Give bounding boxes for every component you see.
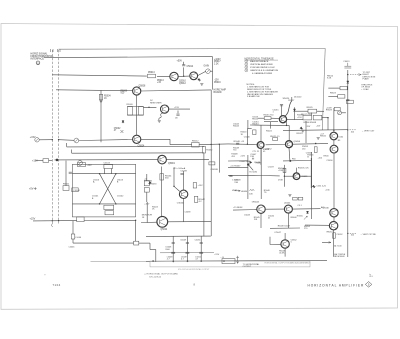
cross mark: [120, 130, 123, 133]
wire bus 4b: [167, 158, 210, 160]
transistor Q5004: [133, 135, 141, 143]
wire bus 4: [55, 159, 158, 161]
wire output bus left: [91, 260, 147, 262]
svg-text:Q5644: Q5644: [284, 202, 291, 204]
capacitor C5041: [134, 241, 139, 245]
wire CRT deflection line: [347, 70, 349, 257]
resistor R5666: [303, 115, 312, 120]
transistor Q5040: [179, 190, 187, 198]
wire upper right bus: [283, 160, 312, 162]
svg-text:R5655: R5655: [297, 216, 304, 218]
wire mid bus 2b: [261, 175, 280, 177]
resistor R5004: [99, 94, 102, 100]
svg-text:2.2K: 2.2K: [214, 63, 219, 65]
wire jog down: [169, 139, 171, 144]
svg-text:Q5019: Q5019: [168, 163, 176, 165]
resistor R5005: [43, 159, 49, 163]
wire X diagonal 2: [100, 174, 116, 204]
wire driver column: [161, 167, 163, 217]
wire pot stub: [79, 159, 81, 162]
svg-text:C5104: C5104: [73, 190, 80, 192]
transistor Q5054: [286, 141, 293, 148]
svg-text:MAIN INTERFACE: MAIN INTERFACE: [250, 60, 269, 63]
wire Q5044 emitter: [260, 213, 262, 228]
svg-text:C5.1: C5.1: [298, 205, 302, 207]
title diamond 5: [365, 282, 371, 288]
wire R5001 to cable: [39, 139, 52, 141]
wire L5046 branch: [72, 221, 74, 234]
wire feed to CRT upper: [283, 129, 348, 132]
junction X bl: [99, 203, 100, 204]
svg-text:R5023: R5023: [297, 133, 304, 135]
wire Q5040 collector: [183, 171, 185, 190]
svg-text:INTERFACE: INTERFACE: [31, 57, 45, 60]
wire right column bottom: [333, 230, 335, 257]
wire RC pair bottom: [127, 114, 143, 116]
wire center vert top: [247, 120, 249, 129]
svg-text:+ COAX: + COAX: [361, 88, 369, 91]
wire bus 3: [72, 152, 204, 154]
svg-text:+15V: +15V: [32, 160, 38, 163]
svg-text:BOARD: BOARD: [214, 91, 222, 94]
resistor R5009: [127, 107, 132, 116]
svg-text:R5021 4.5: R5021 4.5: [270, 136, 280, 138]
coax curve to delay line: [285, 101, 292, 117]
wire to C5014: [183, 67, 185, 76]
svg-text:Q9046: Q9046: [322, 207, 329, 209]
wire Q5046 collector: [284, 233, 286, 240]
capacitor C504B: [229, 175, 232, 176]
junction e: [286, 125, 287, 126]
wire upper signal: [50, 57, 213, 58]
svg-text:+50V: +50V: [240, 156, 245, 158]
svg-text:GAIN: GAIN: [204, 65, 210, 68]
wire stub2: [71, 150, 73, 154]
wire output bus: [146, 260, 327, 261]
wire delay feed: [73, 242, 134, 244]
node circled 8: [36, 61, 40, 65]
capacitor C9021: [346, 99, 349, 100]
wire pickoff row: [146, 235, 211, 237]
wire R9023 left: [328, 95, 337, 97]
potentiometer R5018 GAIN: [206, 69, 211, 74]
svg-text:+15V: +15V: [87, 165, 93, 167]
wire feed2: [36, 160, 44, 162]
ground q5653: [288, 195, 291, 197]
wire collector bus: [250, 124, 289, 126]
wire diode branch: [294, 107, 296, 119]
svg-text:C/5047: C/5047: [274, 232, 282, 234]
svg-text:SYNCHRONIZER LOGIC: SYNCHRONIZER LOGIC: [250, 67, 275, 69]
junction X tl: [99, 173, 100, 174]
wire Q5014 emitter: [286, 122, 288, 126]
wire pot out: [342, 112, 346, 114]
wire up from base: [246, 129, 248, 145]
junction blob: [56, 159, 59, 162]
junction bus: [223, 260, 225, 262]
wire alt in: [322, 241, 331, 243]
wire down to Q5012 node: [212, 57, 214, 90]
wire center vert 1: [247, 155, 249, 199]
resistor squiggle: [250, 189, 255, 191]
wire trimmer right leg: [111, 169, 113, 174]
wire R5033 top: [146, 174, 148, 181]
wire into Q5052: [228, 143, 258, 146]
resistor R5037: [193, 183, 196, 188]
svg-text:C9013: C9013: [343, 61, 350, 63]
connector ticks: [51, 49, 61, 52]
wire R5056 column: [283, 165, 285, 187]
wire down to C5048 box: [135, 220, 137, 241]
diode CR5017: [293, 109, 295, 111]
wire feed3: [33, 220, 77, 222]
junction top: [289, 160, 291, 162]
resistor R5042: [194, 196, 197, 202]
svg-text:R5044: R5044: [233, 126, 240, 128]
junction 219: [219, 144, 220, 145]
svg-text:C5051: C5051: [195, 240, 202, 242]
wire Q5010 to Q5012: [178, 75, 190, 77]
wire right column top: [333, 108, 335, 132]
capacitor C5051: [200, 242, 203, 243]
svg-text:270B: 270B: [278, 180, 283, 182]
svg-text:R5012: R5012: [192, 140, 199, 142]
wire left of right block: [305, 121, 307, 143]
wire cap stub: [177, 111, 179, 114]
svg-text:Q5054: Q5054: [294, 141, 301, 143]
capacitor C5016: [176, 114, 179, 115]
svg-text:-15V: -15V: [316, 125, 321, 127]
wire X bottom to box right: [116, 203, 136, 205]
wire RC pair top: [127, 106, 143, 108]
svg-text:C5102: C5102: [117, 196, 124, 198]
svg-text:& CAMERA POWER: & CAMERA POWER: [252, 72, 273, 75]
svg-text:7104: 7104: [53, 283, 61, 287]
resistor R5021: [273, 138, 278, 141]
capacitor at box left: [69, 172, 72, 173]
potentiometer R9033: [338, 111, 342, 115]
resistor R5011: [63, 186, 69, 191]
svg-text:C5040: C5040: [244, 137, 251, 139]
svg-text:8.2K: 8.2K: [327, 78, 332, 80]
svg-text:+15V: +15V: [144, 203, 150, 205]
svg-text:R5049 C5047: R5049 C5047: [278, 226, 291, 228]
inductor L5046: [71, 234, 75, 239]
wire center vert 2: [260, 149, 262, 200]
capacitor C5103 trimmer: [104, 165, 113, 169]
svg-text:HORIZONTAL OUTPUT BOARD A3: HORIZONTAL OUTPUT BOARD A30 ASSEMBLY: [265, 261, 311, 264]
wire long right vert: [311, 152, 313, 219]
transistor Q5052: [257, 142, 264, 149]
wire Q5008 emitter chain: [136, 95, 138, 135]
wire X to box right: [116, 173, 136, 175]
svg-text:C5037: C5037: [268, 166, 275, 168]
junction cable2: [58, 139, 59, 140]
wire R9016 left: [328, 87, 340, 89]
resistor R5033: [144, 181, 149, 186]
svg-text:C5103: C5103: [104, 163, 111, 165]
junction q5653 base: [284, 176, 285, 177]
wire Q5014 emitter right: [287, 119, 303, 121]
svg-text:C5014: C5014: [187, 66, 194, 68]
svg-text:R9029: R9029: [326, 110, 333, 112]
svg-text:R5666 R5668: R5666 R5668: [304, 122, 317, 124]
junction crt1: [333, 130, 334, 131]
wire Q5052 emitter down: [260, 148, 262, 165]
svg-text:R9023: R9023: [330, 93, 337, 95]
transistor Q5644: [284, 205, 292, 213]
wire R5012 to dense block: [199, 143, 228, 146]
svg-text:R5046 +15: R5046 +15: [234, 141, 245, 143]
svg-text:R5059 2.2K: R5059 2.2K: [298, 168, 309, 170]
svg-text:VERT: VERT: [232, 190, 238, 192]
svg-text:TD 5036: TD 5036: [249, 171, 258, 173]
wire R5011 up: [65, 161, 67, 186]
transistor Q9046: [330, 209, 338, 217]
svg-text:+15V: +15V: [214, 254, 220, 256]
svg-text:HORIZONTAL AMPLIFIER: HORIZONTAL AMPLIFIER: [308, 283, 365, 287]
wire Q5014 top: [281, 105, 283, 116]
svg-text:R9021: R9021: [320, 136, 327, 138]
wire lower link: [270, 227, 300, 229]
diode blob CR5048: [250, 161, 253, 164]
wire Q5024 out: [168, 221, 212, 223]
wire mid bus left: [228, 160, 248, 162]
wire jog: [247, 128, 251, 130]
ground dc restorer: [158, 121, 161, 123]
transistor Q5019: [158, 155, 167, 164]
junction plate: [347, 74, 348, 75]
wire blanking 1: [233, 209, 257, 212]
resistor R5107: [105, 211, 114, 215]
resistor R9016: [340, 86, 347, 89]
svg-text:45.3K: 45.3K: [279, 253, 285, 255]
resistor R5101: [78, 162, 86, 166]
wire R boxes top: [311, 113, 313, 116]
svg-text:Q5012: Q5012: [179, 83, 187, 85]
wire bus 2: [67, 146, 204, 148]
svg-text:VERTICAL AMPLIFIER: VERTICAL AMPLIFIER: [250, 63, 273, 66]
diode tunnel TD5036: [148, 182, 151, 185]
capacitor C5049: [186, 242, 189, 243]
svg-text:W5020: W5020: [283, 98, 290, 100]
wire Q5054 out right: [293, 143, 328, 146]
transistor Q5044: [257, 205, 265, 213]
svg-text:5R5044: 5R5044: [252, 201, 260, 203]
svg-text:+15B: +15B: [278, 170, 283, 172]
junction crt2: [347, 129, 348, 130]
svg-text:R5011: R5011: [63, 184, 70, 186]
resistor R9025: [346, 100, 353, 103]
wire R5033 bottom: [146, 192, 148, 202]
junction wiper: [247, 163, 249, 165]
wire blanking 2: [265, 208, 284, 210]
wire Q5644 emitter: [287, 213, 289, 228]
diode CR5009: [122, 121, 124, 123]
wire Q5054 emitter down: [288, 148, 291, 161]
junction dropper1 bus: [172, 261, 174, 263]
wire arrow to plate: [350, 74, 361, 76]
wire R5029 right: [317, 110, 324, 112]
inductor bars dropper 1: [171, 252, 175, 253]
capacitor bars C5047: [253, 158, 254, 160]
wire coax up: [291, 97, 293, 101]
svg-text:OUTPUT: OUTPUT: [243, 266, 252, 268]
transistor Q9034: [330, 145, 338, 153]
wire to R5012: [170, 144, 192, 146]
diode CR5012: [198, 78, 201, 81]
svg-text:CR5036: CR5036: [144, 181, 153, 183]
potentiometer R5002 CENTER: [74, 138, 79, 143]
note circled 2: [245, 63, 248, 66]
wire jog q5046: [269, 237, 271, 245]
wire to R5029: [295, 110, 308, 112]
wire Q5653 top: [296, 168, 298, 173]
junction dropper3 bus: [200, 260, 202, 262]
resistor R5015: [264, 117, 271, 120]
transistor Q5008: [133, 87, 141, 95]
junction R5664: [315, 143, 316, 144]
junction cable3: [52, 220, 53, 221]
wire wiper diagonal: [248, 165, 253, 171]
inductor bars dropper 2: [186, 252, 190, 253]
wire top feed to output: [59, 47, 326, 50]
wire Q5008 collector: [141, 90, 211, 91]
resistor R5668: [313, 115, 322, 120]
diode CR9014: [347, 81, 349, 83]
svg-text:C5046: C5046: [69, 246, 76, 248]
svg-text:+15 R5047: +15 R5047: [230, 165, 241, 167]
wire into Q5024: [141, 221, 157, 223]
wire mid bus 2: [228, 175, 261, 177]
resistor R5018b: [253, 130, 256, 135]
resistor R5030: [202, 147, 205, 154]
resistor R5110: [77, 217, 84, 222]
transistor Q9024: [330, 132, 338, 140]
svg-text:+15 BLNK: +15 BLNK: [233, 207, 243, 209]
svg-text:R904: R904: [324, 155, 330, 157]
svg-text:L5046: L5046: [76, 237, 82, 239]
resistor R5664: [314, 147, 317, 153]
wire dropper 1: [172, 236, 174, 261]
wire dropper 2: [186, 236, 188, 261]
transistor Q5010: [170, 72, 178, 80]
wire X bottom: [100, 203, 116, 205]
wire input to cable: [44, 57, 50, 59]
svg-text:+50V: +50V: [177, 61, 183, 63]
wire box left to X bottom: [72, 203, 99, 205]
wire arrow right: [350, 129, 357, 131]
note circled 4: [245, 69, 248, 72]
junction at board edge: [211, 144, 212, 145]
junction X br: [115, 203, 116, 204]
resistor R9057 body: [333, 233, 336, 238]
svg-text:+5V: +5V: [29, 188, 34, 191]
svg-text:DL5020: DL5020: [294, 97, 302, 99]
svg-text:→ VERT CKT BD: → VERT CKT BD: [360, 234, 376, 236]
wire monitor column: [146, 202, 148, 223]
svg-text:+15V: +15V: [198, 185, 204, 187]
shield cable dashed line left: [51, 50, 53, 224]
wire box left to X: [72, 173, 99, 175]
resistor R5029: [308, 109, 317, 113]
pot arrow mid: [304, 216, 307, 219]
svg-text:Q5008: Q5008: [139, 86, 147, 88]
junction cable4: [58, 220, 59, 221]
resistor R5056: [283, 168, 286, 172]
svg-text:C5043: C5043: [244, 214, 251, 216]
svg-text:C5656: C5656: [327, 160, 334, 162]
resistor R5035: [144, 188, 149, 193]
svg-text:C 54B: C 54B: [232, 179, 238, 181]
svg-text:R5036: R5036: [255, 162, 262, 164]
resistor R5034: [160, 174, 164, 180]
svg-text:HORIZONTAL TIMEBASE: HORIZONTAL TIMEBASE: [245, 57, 274, 60]
transistor Q5653: [293, 173, 300, 180]
svg-text:C5034B: C5034B: [211, 169, 219, 171]
arrowhead plate: [359, 74, 362, 76]
ground at CR5012: [200, 84, 203, 86]
wire Q5012 to gain pot: [198, 71, 206, 75]
svg-text:+15V: +15V: [174, 107, 180, 109]
junction dropper2 bus: [187, 260, 189, 262]
svg-text:+15V: +15V: [30, 217, 36, 220]
svg-text:MFG: MFG: [369, 276, 374, 278]
wire 311 column: [310, 158, 312, 188]
capacitor small: [236, 143, 239, 144]
inductor bars dropper 3: [199, 252, 203, 253]
wire to emitter follower: [52, 75, 147, 76]
svg-text:R5033: R5033: [151, 183, 158, 185]
diode mid: [300, 127, 303, 130]
wire column 204: [203, 153, 205, 236]
arrow alt in: [329, 242, 331, 244]
connector +15V delay: [222, 259, 235, 264]
wire R5110 right: [84, 219, 136, 221]
svg-text:→ VERT CKT: → VERT CKT: [362, 131, 376, 133]
svg-text:C9052: C9052: [337, 234, 344, 236]
svg-text:670-1147-00 HORIZONTAL OUTPU: 670-1147-00 HORIZONTAL OUTPUT: [178, 268, 210, 271]
junction q5052 base: [247, 144, 248, 145]
svg-text:R9: R9: [338, 140, 341, 142]
capacitor C5009: [138, 107, 143, 116]
svg-text:R5015 750: R5015 750: [264, 115, 275, 117]
capacitor C5048: [172, 242, 175, 243]
svg-text:Q5004: Q5004: [138, 145, 146, 147]
diode CR5661: [312, 185, 315, 188]
wire to Q5016 base: [143, 106, 156, 108]
svg-text:R5009: R5009: [127, 104, 134, 106]
inductor loop L5016: [159, 113, 163, 120]
svg-text:C561 5-25: C561 5-25: [317, 185, 327, 187]
junction X tr: [115, 173, 116, 174]
svg-text:△ HORIZONTAL OUTPUT BOARD: △ HORIZONTAL OUTPUT BOARD: [144, 272, 178, 275]
wire right column mid: [333, 153, 335, 209]
ground right block: [317, 138, 320, 140]
svg-text:FROM 5648: FROM 5648: [334, 256, 346, 258]
capacitor C5014: [182, 65, 185, 66]
resistor R5025: [209, 162, 215, 165]
wire boxes to column: [322, 117, 328, 119]
svg-text:R5013: R5013: [252, 118, 259, 120]
wire pickoff jog down: [149, 243, 151, 249]
wire to R5015: [258, 117, 264, 119]
wire to Q5008: [56, 89, 133, 92]
svg-text:R5029: R5029: [307, 107, 314, 109]
junction cable1: [52, 139, 53, 140]
note circled 1: [245, 60, 248, 63]
arrow A5034: [235, 190, 241, 192]
